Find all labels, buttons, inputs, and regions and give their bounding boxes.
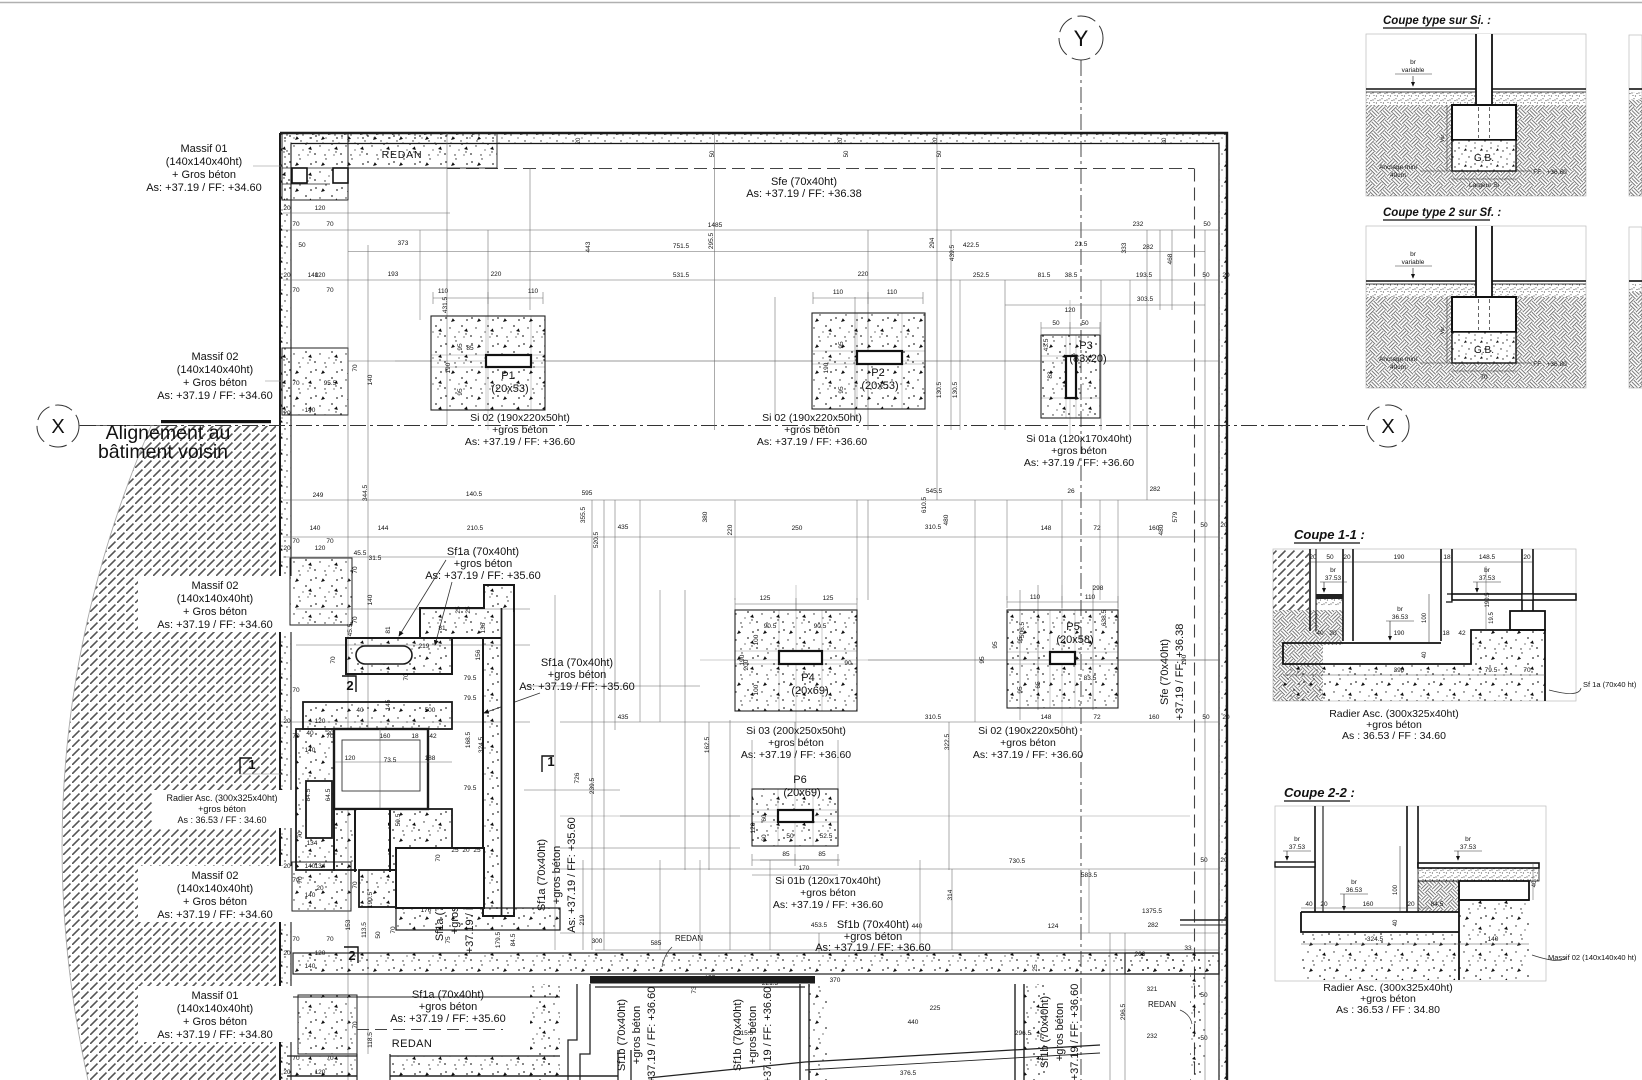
- svg-text:730.5: 730.5: [1009, 858, 1026, 865]
- svg-text:70: 70: [292, 936, 300, 943]
- svg-text:As: +37.19 / FF: +36.60: As: +37.19 / FF: +36.60: [1024, 457, 1134, 469]
- svg-text:70: 70: [390, 926, 397, 934]
- svg-text:79.5: 79.5: [464, 695, 477, 702]
- svg-text:25: 25: [465, 606, 472, 614]
- svg-text:20: 20: [1329, 630, 1337, 637]
- svg-text:453.5: 453.5: [811, 922, 828, 929]
- svg-text:Si 02 (190x220x50ht): Si 02 (190x220x50ht): [978, 725, 1078, 737]
- leader massif 01: [253, 165, 282, 167]
- svg-text:+gros béton: +gros béton: [454, 558, 512, 570]
- svg-text:59.5: 59.5: [395, 813, 402, 826]
- gros beton block coupe Sf: [1452, 332, 1516, 363]
- coupe 2-2 leader massif: [1532, 955, 1566, 961]
- svg-text:20: 20: [283, 272, 291, 279]
- svg-text:Ancrage mini: Ancrage mini: [1379, 356, 1417, 363]
- svg-text:37.53: 37.53: [1289, 844, 1306, 851]
- alignment leader line: [79, 425, 161, 427]
- svg-text:200: 200: [743, 659, 750, 670]
- svg-text:Sf1b (70x40ht): Sf1b (70x40ht): [732, 999, 744, 1071]
- svg-text:37.53: 37.53: [1460, 844, 1477, 851]
- footing base P3: [1041, 335, 1100, 418]
- svg-text:140.5: 140.5: [466, 491, 483, 498]
- svg-text:20: 20: [1309, 554, 1317, 561]
- svg-text:50: 50: [1326, 554, 1334, 561]
- svg-text:190: 190: [1394, 630, 1405, 637]
- svg-text:95: 95: [457, 343, 464, 351]
- svg-text:90: 90: [844, 660, 852, 667]
- svg-text:P1: P1: [501, 370, 514, 382]
- dim largeur coupe Si: [1452, 178, 1516, 180]
- coupe 1-1 small floor bar left: [1316, 594, 1343, 599]
- svg-text:X: X: [51, 416, 64, 438]
- svg-text:193.5: 193.5: [1136, 272, 1153, 279]
- svg-text:26: 26: [1067, 488, 1075, 495]
- svg-text:110: 110: [833, 289, 844, 296]
- coupe 1-1 leader Sf1a: [1549, 688, 1581, 694]
- svg-text:50: 50: [1081, 320, 1089, 327]
- svg-text:282: 282: [1148, 922, 1159, 929]
- svg-text:50: 50: [1202, 714, 1210, 721]
- svg-text:As : 36.53 / FF : 34.60: As : 36.53 / FF : 34.60: [1342, 730, 1446, 742]
- svg-text:70: 70: [1523, 667, 1531, 674]
- coupe 1-1 stipple below radier: [1283, 630, 1545, 701]
- coupe 1-1 wall second pair: [1342, 549, 1344, 641]
- svg-text:130.5: 130.5: [936, 381, 943, 398]
- coupe 2-2 weave block: [1418, 881, 1459, 912]
- svg-text:25: 25: [455, 606, 462, 614]
- svg-text:70: 70: [326, 221, 334, 228]
- svg-text:Sf1a (70x40ht): Sf1a (70x40ht): [541, 657, 613, 669]
- svg-text:20: 20: [1222, 272, 1230, 279]
- svg-text:148: 148: [1041, 714, 1052, 721]
- svg-text:18: 18: [1443, 554, 1451, 561]
- svg-text:50: 50: [375, 931, 382, 939]
- svg-text:+gros béton: +gros béton: [784, 424, 840, 436]
- svg-text:50: 50: [1203, 221, 1211, 228]
- svg-text:390: 390: [1394, 667, 1405, 674]
- massif 01 footing square bottom: [298, 995, 357, 1054]
- svg-text:br: br: [1410, 59, 1417, 66]
- svg-text:219: 219: [419, 643, 430, 650]
- svg-text:20: 20: [1343, 554, 1351, 561]
- svg-text:193: 193: [388, 271, 399, 278]
- massif 01 footing square top-left: [282, 133, 348, 200]
- svg-text:190.5: 190.5: [367, 891, 374, 908]
- svg-text:+gros béton: +gros béton: [747, 1006, 759, 1064]
- svg-text:140: 140: [367, 594, 374, 605]
- svg-text:Sf1a (70x40ht): Sf1a (70x40ht): [536, 839, 548, 911]
- svg-text:70: 70: [292, 380, 300, 387]
- column P2: [857, 351, 902, 364]
- svg-text:210.5: 210.5: [467, 525, 484, 532]
- svg-text:75: 75: [445, 936, 452, 944]
- coupe 2-2 footing bottom line: [1459, 899, 1529, 901]
- svg-text:As: +37.19 / FF: +36.60: As: +37.19 / FF: +36.60: [465, 436, 575, 448]
- svg-text:REDAN: REDAN: [392, 1038, 433, 1050]
- svg-text:+ Gros béton: + Gros béton: [183, 606, 247, 618]
- svg-text:85: 85: [818, 851, 826, 858]
- svg-text:70: 70: [297, 831, 304, 839]
- svg-text:+gros béton: +gros béton: [1000, 737, 1056, 749]
- svg-text:545.5: 545.5: [926, 488, 943, 495]
- svg-text:br: br: [1294, 836, 1301, 843]
- svg-text:124: 124: [1048, 923, 1059, 930]
- svg-text:20: 20: [316, 885, 324, 892]
- svg-text:355.5: 355.5: [580, 506, 587, 523]
- svg-text:435: 435: [618, 524, 629, 531]
- svg-text:148: 148: [1041, 525, 1052, 532]
- svg-text:70: 70: [326, 538, 334, 545]
- svg-text:120: 120: [315, 205, 326, 212]
- svg-text:310.5: 310.5: [925, 524, 942, 531]
- coupe 2-2 stipple below: [1301, 900, 1529, 980]
- svg-text:72: 72: [1093, 525, 1101, 532]
- svg-text:Massif 01: Massif 01: [180, 143, 227, 155]
- svg-text:20: 20: [283, 950, 291, 957]
- svg-text:Sfe (70x40ht): Sfe (70x40ht): [1159, 639, 1171, 705]
- svg-text:40cm: 40cm: [1390, 364, 1406, 371]
- svg-text:Sf1a (70x40ht): Sf1a (70x40ht): [412, 989, 484, 1001]
- svg-text:P2: P2: [871, 367, 884, 379]
- svg-text:G.B.: G.B.: [1474, 345, 1494, 356]
- svg-text:Massif 02: Massif 02: [191, 870, 238, 882]
- coupe 1-1 top dim line: [1310, 561, 1533, 563]
- svg-text:249: 249: [313, 492, 324, 499]
- dim largeur coupe Sf: [1452, 370, 1516, 372]
- svg-text:40: 40: [356, 707, 364, 714]
- coupe 2-2 footing white: [1459, 881, 1529, 900]
- svg-text:(140x140x40ht): (140x140x40ht): [177, 364, 253, 376]
- svg-text:85: 85: [466, 345, 474, 352]
- ground hatch coupe Si: [1366, 92, 1586, 105]
- svg-text:As: +37.19 / FF: +36.38: As: +37.19 / FF: +36.38: [746, 188, 862, 200]
- svg-text:579: 579: [1172, 511, 1179, 522]
- svg-text:br: br: [1397, 606, 1404, 613]
- axis X circle left: [37, 405, 79, 447]
- svg-text:70: 70: [292, 733, 300, 740]
- svg-text:br: br: [1484, 567, 1491, 574]
- svg-text:(140x140x40ht): (140x140x40ht): [166, 156, 242, 168]
- svg-text:P5: P5: [1066, 621, 1079, 633]
- svg-text:380: 380: [702, 511, 709, 522]
- bottom left step walls: [568, 984, 590, 1080]
- svg-text:162.5: 162.5: [704, 736, 711, 753]
- svg-text:324.5: 324.5: [478, 736, 485, 753]
- svg-text:120: 120: [315, 545, 326, 552]
- svg-text:20: 20: [283, 1069, 291, 1076]
- svg-text:+ Gros béton: + Gros béton: [183, 1016, 247, 1028]
- svg-text:70: 70: [403, 673, 410, 681]
- svg-text:20: 20: [283, 863, 291, 870]
- svg-text:37.53: 37.53: [1479, 575, 1496, 582]
- svg-text:145: 145: [385, 699, 392, 710]
- pit top hook strip: [346, 638, 452, 674]
- svg-text:60: 60: [761, 834, 768, 842]
- ground surface lines coupe Sf: [1366, 280, 1476, 282]
- svg-text:70: 70: [326, 1055, 334, 1062]
- svg-text:As: +37.19 / FF: +34.60: As: +37.19 / FF: +34.60: [157, 390, 273, 402]
- svg-text:190: 190: [445, 362, 452, 373]
- pit bottom arm: [334, 809, 452, 870]
- svg-text:Var.: Var.: [1440, 326, 1446, 335]
- svg-text:440: 440: [912, 923, 923, 930]
- svg-text:Coupe type 2 sur Sf. :: Coupe type 2 sur Sf. :: [1383, 207, 1501, 219]
- svg-text:REDAN: REDAN: [1148, 1000, 1176, 1009]
- footing base P1: [431, 316, 545, 410]
- svg-text:As: +37.19 / FF: +34.60: As: +37.19 / FF: +34.60: [157, 619, 273, 631]
- svg-text:79.5: 79.5: [464, 675, 477, 682]
- svg-text:81: 81: [385, 626, 392, 634]
- svg-text:431.5: 431.5: [442, 296, 449, 313]
- svg-text:50: 50: [298, 242, 306, 249]
- svg-text:20: 20: [1162, 137, 1168, 144]
- svg-text:294: 294: [929, 237, 936, 248]
- svg-text:variable: variable: [1402, 259, 1425, 266]
- coupe 2-2 centre wall pair: [1406, 806, 1408, 912]
- gros beton block coupe Si: [1452, 140, 1516, 171]
- svg-text:50: 50: [1052, 320, 1060, 327]
- svg-text:+gros béton: +gros béton: [551, 846, 563, 904]
- svg-text:18: 18: [1442, 630, 1450, 637]
- svg-text:70: 70: [352, 881, 359, 889]
- svg-text:610.5: 610.5: [921, 496, 928, 513]
- svg-text:70: 70: [292, 287, 300, 294]
- white panels behind hatch labels: [138, 576, 294, 632]
- redan strip top concrete: [348, 133, 497, 168]
- svg-text:480: 480: [943, 514, 950, 525]
- svg-text:168.5: 168.5: [465, 731, 472, 748]
- alignment thick bar: [161, 420, 271, 423]
- svg-text:19.5: 19.5: [1489, 612, 1495, 624]
- svg-text:(20x53): (20x53): [491, 383, 528, 395]
- coupe 2-2 right slab bar: [1418, 863, 1539, 868]
- svg-text:As: +37.19 / FF: +34.60: As: +37.19 / FF: +34.60: [157, 909, 273, 921]
- svg-text:G.B.: G.B.: [1474, 153, 1494, 164]
- svg-text:422.5: 422.5: [963, 242, 980, 249]
- svg-text:37.53: 37.53: [1325, 575, 1342, 582]
- svg-text:583.5: 583.5: [1081, 872, 1098, 879]
- svg-text:140: 140: [1488, 936, 1499, 943]
- svg-text:40: 40: [1422, 651, 1428, 658]
- svg-text:20: 20: [462, 847, 470, 854]
- svg-text:595: 595: [582, 490, 593, 497]
- svg-text:220: 220: [727, 524, 734, 535]
- svg-text:2: 2: [346, 678, 353, 693]
- svg-text:322.5: 322.5: [944, 733, 951, 750]
- svg-text:100: 100: [1393, 884, 1399, 895]
- footing top dim lines: [433, 297, 543, 299]
- plan wall band texture left: [281, 143, 291, 1080]
- svg-text:170: 170: [421, 907, 432, 914]
- svg-text:125: 125: [823, 595, 834, 602]
- svg-text:72: 72: [1093, 714, 1101, 721]
- svg-text:As: +37.19 / FF: +34.80: As: +37.19 / FF: +34.80: [157, 1029, 273, 1041]
- svg-text:Coupe 2-2 :: Coupe 2-2 :: [1284, 785, 1355, 800]
- svg-text:As: +37.19 / FF: +35.60: As: +37.19 / FF: +35.60: [390, 1013, 506, 1025]
- svg-text:Sfe (70x40ht): Sfe (70x40ht): [771, 176, 837, 188]
- vertical dim coupe Si: [1446, 105, 1448, 171]
- svg-text:40: 40: [306, 730, 314, 737]
- svg-text:81: 81: [438, 625, 446, 632]
- svg-text:70: 70: [435, 854, 442, 862]
- svg-text:110: 110: [528, 288, 539, 295]
- svg-text:303.5: 303.5: [1137, 296, 1154, 303]
- svg-text:FF : +36.60: FF : +36.60: [1533, 169, 1567, 176]
- svg-text:160: 160: [1149, 714, 1160, 721]
- svg-text:95: 95: [1017, 686, 1024, 694]
- svg-text:120: 120: [1065, 307, 1076, 314]
- svg-text:+gros béton: +gros béton: [419, 1001, 477, 1013]
- coupe 1-1 wall left pair: [1309, 549, 1311, 631]
- svg-text:+gros béton: +gros béton: [198, 804, 246, 814]
- svg-text:+37.19 / FF: +36.60: +37.19 / FF: +36.60: [646, 987, 658, 1080]
- svg-text:As : 36.53 / FF : 34.60: As : 36.53 / FF : 34.60: [177, 815, 266, 825]
- svg-text:P3: P3: [1079, 340, 1092, 352]
- svg-text:+ Gros béton: + Gros béton: [183, 896, 247, 908]
- leader massif 02: [265, 380, 282, 382]
- bottom footing band: [293, 953, 1219, 974]
- svg-text:153: 153: [345, 919, 352, 930]
- svg-text:134: 134: [307, 840, 318, 847]
- svg-text:140: 140: [310, 525, 321, 532]
- svg-text:As: +37.19 / FF: +34.60: As: +37.19 / FF: +34.60: [146, 182, 262, 194]
- svg-text:100: 100: [1422, 612, 1428, 623]
- svg-text:50: 50: [1200, 857, 1208, 864]
- svg-text:160: 160: [1363, 901, 1374, 908]
- footing block coupe Sf: [1452, 297, 1516, 332]
- svg-text:81.5: 81.5: [1038, 272, 1051, 279]
- neighbour zone arc boundary: [62, 426, 151, 1080]
- svg-text:As : 36.53 / FF : 34.80: As : 36.53 / FF : 34.80: [1336, 1004, 1440, 1016]
- svg-text:373: 373: [398, 240, 409, 247]
- svg-text:31.5: 31.5: [369, 555, 382, 562]
- svg-text:42: 42: [429, 733, 437, 740]
- footing block coupe Si: [1452, 105, 1516, 140]
- svg-text:bâtiment voisin: bâtiment voisin: [98, 441, 228, 463]
- svg-text:50: 50: [844, 150, 850, 157]
- svg-text:73.5: 73.5: [384, 757, 397, 764]
- column P1: [486, 355, 531, 367]
- svg-text:38.5: 38.5: [1065, 272, 1078, 279]
- svg-text:40: 40: [1305, 901, 1313, 908]
- svg-text:95: 95: [838, 386, 845, 394]
- svg-text:43.5: 43.5: [1043, 338, 1050, 351]
- svg-text:95: 95: [979, 656, 986, 664]
- svg-text:As: +37.19 / FF: +36.60: As: +37.19 / FF: +36.60: [773, 899, 883, 911]
- svg-text:20: 20: [283, 205, 291, 212]
- svg-text:20: 20: [1220, 857, 1228, 864]
- footing base P2: [812, 313, 925, 409]
- svg-text:20: 20: [1320, 901, 1328, 908]
- coupe 1-1 floor slab right: [1452, 594, 1576, 600]
- svg-text:239.5: 239.5: [589, 777, 596, 794]
- svg-text:70: 70: [352, 616, 359, 624]
- coupe 1-1 basket weave zone: [1273, 610, 1343, 701]
- bottom right border stipple: [1190, 975, 1205, 1080]
- massif 02 footing square mid: [290, 558, 352, 625]
- svg-text:140: 140: [305, 407, 316, 414]
- svg-text:P4: P4: [801, 672, 814, 684]
- coupe 2-2 wall left pair: [1314, 806, 1316, 912]
- svg-text:282: 282: [1143, 244, 1154, 251]
- hatched neighbour building zone: [62, 426, 276, 1080]
- svg-text:36.53: 36.53: [1346, 887, 1363, 894]
- footing base P4: [735, 610, 857, 711]
- svg-text:435: 435: [618, 714, 629, 721]
- plan inner border wall: [291, 144, 1219, 1080]
- svg-text:Largeur Si: Largeur Si: [1469, 182, 1499, 189]
- bottom-left lower strip: [287, 1055, 560, 1057]
- svg-text:Si 01a (120x170x40ht): Si 01a (120x170x40ht): [1026, 433, 1132, 445]
- ground hatch coupe Sf: [1366, 284, 1586, 297]
- svg-text:100: 100: [753, 684, 760, 695]
- extra fabric verticals: [419, 230, 421, 320]
- svg-text:110: 110: [438, 288, 449, 295]
- svg-text:440: 440: [908, 1019, 919, 1026]
- footing base P6: [752, 789, 838, 846]
- svg-text:84.5: 84.5: [305, 788, 312, 801]
- svg-text:295.5: 295.5: [708, 232, 715, 249]
- svg-text:84.5: 84.5: [1431, 901, 1444, 908]
- svg-text:70: 70: [352, 364, 359, 372]
- svg-text:310.5: 310.5: [925, 714, 942, 721]
- column stem coupe Si: [1476, 34, 1492, 105]
- svg-text:+gros béton: +gros béton: [1051, 445, 1107, 457]
- svg-text:170: 170: [799, 865, 810, 872]
- svg-text:X: X: [1381, 416, 1394, 438]
- svg-text:140: 140: [305, 963, 316, 970]
- svg-text:70: 70: [292, 877, 300, 884]
- svg-text:Massif 02: Massif 02: [191, 351, 238, 363]
- svg-text:79.5: 79.5: [1485, 667, 1498, 674]
- svg-text:variable: variable: [1402, 67, 1425, 74]
- svg-text:Massif 02 (140x140x40 ht): Massif 02 (140x140x40 ht): [1548, 953, 1637, 962]
- svg-text:70: 70: [292, 221, 300, 228]
- extra fabric horizontals: [524, 685, 700, 687]
- svg-text:Si 03 (200x250x50ht): Si 03 (200x250x50ht): [746, 725, 846, 737]
- bottom stipple columns: [809, 984, 827, 1080]
- svg-text:50: 50: [1200, 522, 1208, 529]
- pit bottom connector: [359, 870, 396, 907]
- svg-text:br: br: [1330, 567, 1337, 574]
- svg-text:118.5: 118.5: [367, 1032, 374, 1048]
- svg-text:110: 110: [887, 289, 898, 296]
- axis Y dash-dot line: [1080, 60, 1082, 1080]
- svg-text:125: 125: [760, 595, 771, 602]
- svg-text:160: 160: [380, 733, 391, 740]
- svg-text:300: 300: [592, 938, 603, 945]
- bottom wall channels: [799, 984, 801, 1080]
- svg-text:333: 333: [1121, 242, 1128, 253]
- svg-text:+ Gros béton: + Gros béton: [172, 169, 236, 181]
- svg-text:Sf1b (70x40ht): Sf1b (70x40ht): [837, 919, 909, 931]
- svg-text:220: 220: [858, 271, 869, 278]
- plan outer border wall: [280, 133, 1227, 1080]
- bottom band lower lines: [595, 986, 805, 988]
- coupe 1-1 box: [1273, 549, 1576, 701]
- svg-text:95: 95: [1017, 636, 1024, 644]
- svg-text:439.5: 439.5: [949, 244, 956, 261]
- massif 02 footing square left: [282, 348, 348, 415]
- svg-text:Si 02 (190x220x50ht): Si 02 (190x220x50ht): [762, 412, 862, 424]
- pit top step block: [420, 585, 514, 638]
- svg-text:REDAN: REDAN: [675, 934, 703, 943]
- svg-text:18: 18: [411, 733, 419, 740]
- svg-text:As: +37.19 / FF: +36.60: As: +37.19 / FF: +36.60: [815, 942, 931, 954]
- coupe 2-2 left slab stub: [1275, 862, 1315, 867]
- svg-text:52.5: 52.5: [820, 833, 833, 840]
- svg-text:70: 70: [326, 733, 334, 740]
